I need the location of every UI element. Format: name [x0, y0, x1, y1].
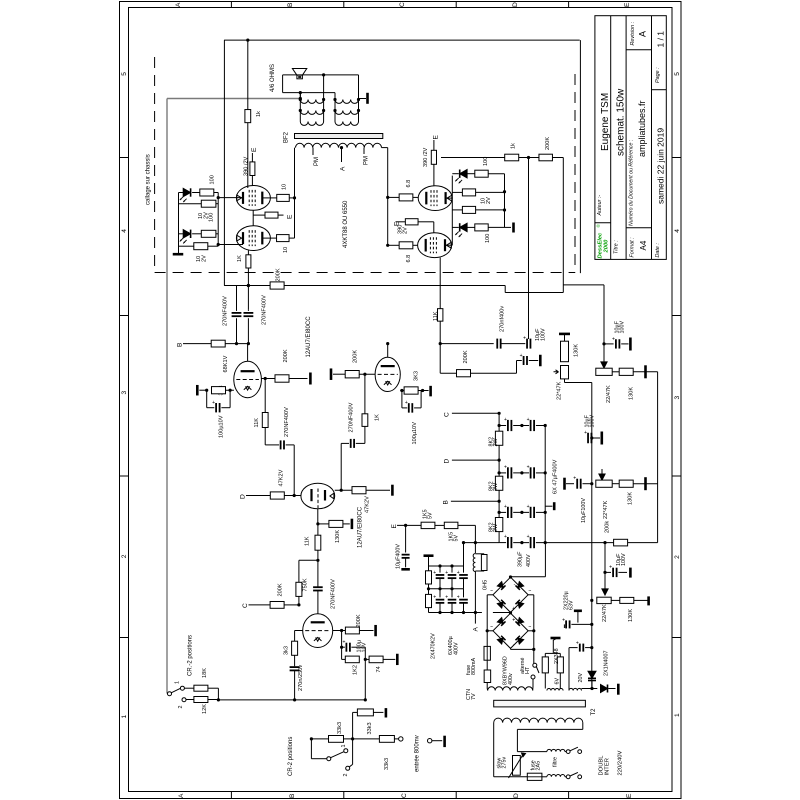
- switch SW2 contact 1: [344, 749, 348, 753]
- resistor 200K decoupling row: [440, 372, 456, 374]
- resistor 1K2 input cathode: [345, 656, 359, 663]
- svg-text:T2: T2: [591, 708, 597, 716]
- terminal bar V5 plate load: [309, 373, 312, 385]
- svg-text:2: 2: [674, 555, 681, 559]
- chassis dashed boundary right vertical: [574, 74, 576, 273]
- wire D row right: [452, 459, 499, 461]
- svg-text:2V: 2V: [202, 255, 208, 262]
- svg-text:ampliatubes.fr: ampliatubes.fr: [637, 100, 647, 157]
- resistor 11K below V4: [438, 309, 443, 322]
- transformer BF2 core bar: [295, 134, 383, 139]
- svg-text:2V: 2V: [403, 227, 409, 234]
- svg-text:270nf400v: 270nf400v: [499, 306, 505, 332]
- choke damping resistor: [481, 555, 487, 571]
- varistor slow 275v: [513, 756, 521, 776]
- svg-text:INTER: INTER: [605, 758, 611, 775]
- rectifier 6V network wires: [544, 673, 546, 689]
- filter cap row2: [499, 472, 506, 474]
- svg-text:+: +: [457, 570, 460, 576]
- svg-text:A: A: [638, 31, 648, 37]
- svg-text:+: +: [342, 640, 345, 646]
- svg-text:filtre: filtre: [552, 757, 558, 767]
- svg-text:B: B: [287, 2, 294, 7]
- svg-text:200K: 200K: [283, 349, 289, 362]
- switch SW2 contact 2: [346, 766, 350, 770]
- potentiometer 22*47K row2: [596, 480, 612, 487]
- wire V4 bottom chain: [439, 258, 441, 309]
- resistor 100 D3: [467, 173, 475, 175]
- svg-text:100V: 100V: [590, 415, 596, 428]
- svg-text:6.8: 6.8: [406, 255, 412, 263]
- svg-text:270NF400V: 270NF400V: [284, 407, 290, 437]
- row2 ground bar: [563, 478, 566, 490]
- svg-text:3K3: 3K3: [414, 371, 420, 381]
- svg-text:1: 1: [674, 713, 681, 717]
- wire bar to 200K: [333, 373, 345, 375]
- svg-text:-: -: [514, 582, 516, 588]
- switch mains lower contact a: [566, 775, 570, 779]
- wire screen feed vertical left: [223, 40, 225, 285]
- wire 12K to junction: [208, 699, 219, 701]
- resistor bias mid right: [452, 209, 462, 211]
- wire to chassis terminal: [359, 98, 367, 100]
- potentiometer 22/47K row1: [596, 368, 612, 375]
- resistor 11K V5 chain: [262, 413, 268, 428]
- wire T2 primary right down: [582, 723, 584, 730]
- svg-text:Titre :: Titre :: [614, 240, 620, 254]
- capacitor 270n/250v V8: [294, 655, 296, 666]
- node bridge junction: [509, 611, 512, 614]
- svg-text:+: +: [504, 534, 507, 540]
- terminal bar splitter load: [391, 485, 394, 496]
- wire speaker loop right vertical: [358, 75, 360, 122]
- wire switch to HT winding: [532, 679, 534, 687]
- svg-text:B: B: [177, 342, 184, 347]
- svg-text:3k3: 3k3: [284, 646, 290, 655]
- wire pot chain corner: [564, 379, 566, 383]
- title block revision cell divider: [626, 49, 651, 51]
- svg-text:22/47K: 22/47K: [606, 385, 612, 403]
- svg-text:CR.-2 positions: CR.-2 positions: [188, 635, 194, 676]
- switch mains lower contact b: [578, 775, 582, 779]
- svg-text:200K: 200K: [463, 350, 469, 363]
- svg-text:C: C: [242, 603, 249, 608]
- resistor 18K: [184, 687, 194, 689]
- svg-text:100: 100: [483, 157, 489, 166]
- capacitor 270NF400V coupling left: [280, 440, 282, 449]
- wire between 1K5: [435, 524, 444, 526]
- wire input row: [311, 738, 399, 740]
- wire 18K to junction: [208, 687, 219, 689]
- svg-text:10µF100V: 10µF100V: [581, 498, 587, 523]
- filter cap row3: [499, 511, 506, 513]
- svg-text:PM: PM: [314, 157, 320, 166]
- wire V8 grid leak right: [333, 630, 342, 632]
- wire screen drop: [528, 158, 530, 340]
- svg-text:270NF400V: 270NF400V: [331, 579, 337, 609]
- svg-text:130K: 130K: [629, 387, 635, 400]
- resistor 3K3 V5 cathode: [212, 389, 234, 391]
- sense bus vertical right: [657, 372, 659, 543]
- wire HT plus from filter bus to bridge: [544, 543, 546, 577]
- svg-text:B: B: [443, 500, 450, 505]
- svg-text:+: +: [504, 504, 507, 510]
- wire to vertical drop: [552, 157, 563, 159]
- svg-text:100µ10V: 100µ10V: [412, 422, 418, 445]
- wire B+ distribution horizontal: [224, 285, 505, 287]
- svg-text:samedi 22 juin 2019: samedi 22 juin 2019: [656, 128, 666, 204]
- wire V1 bottom to V2 top: [252, 210, 254, 225]
- border zone ticks right edge: [672, 157, 681, 159]
- wire primary tap node A: [341, 148, 343, 162]
- wire row1 to bus: [633, 371, 657, 373]
- svg-text:10µF400V: 10µF400V: [396, 544, 402, 569]
- wire bridge right rail: [528, 594, 534, 596]
- terminal bar decoupling: [539, 355, 542, 367]
- resistor 130K row3: [611, 599, 620, 601]
- svg-text:+: +: [573, 476, 576, 482]
- wire mid rail right: [591, 383, 593, 689]
- node feedback tap: [299, 97, 302, 100]
- svg-text:400V: 400V: [454, 642, 460, 655]
- wire primary right end: [382, 147, 388, 149]
- filter cap row4 long wire: [499, 542, 506, 544]
- tube V4 KT88 lower right: [418, 233, 452, 258]
- svg-text:~: ~: [528, 625, 531, 631]
- supply top bus: [429, 565, 464, 567]
- capacitor 270NF400V to input grid: [313, 586, 323, 588]
- svg-text:B: B: [289, 793, 296, 798]
- bleeder resistor 2X470K b: [426, 594, 432, 607]
- resistor 10 V2 plate: [277, 235, 290, 242]
- wire splitter bottom: [317, 509, 319, 524]
- thermistor CTN: [486, 660, 488, 670]
- terminal bar 130K splitter: [351, 519, 354, 529]
- svg-text:400V: 400V: [526, 554, 532, 567]
- svg-text:C: C: [444, 412, 451, 417]
- svg-text:7V: 7V: [471, 693, 477, 700]
- diode D3 bias right: [460, 170, 467, 178]
- svg-text:+: +: [520, 353, 523, 359]
- svg-text:74: 74: [376, 666, 382, 672]
- svg-text:+: +: [504, 417, 507, 423]
- ground chassis bar right bias: [505, 226, 512, 228]
- resistor 2X348 b: [557, 657, 563, 673]
- terminal bar V8 grid leak: [374, 625, 377, 636]
- svg-text:A: A: [340, 166, 347, 171]
- input terminal circle 2: [428, 739, 432, 743]
- svg-text:CR-2 positions: CR-2 positions: [288, 737, 294, 776]
- svg-text:6V: 6V: [554, 678, 560, 685]
- resistor 130K row1: [612, 371, 619, 373]
- svg-text:PM: PM: [364, 156, 370, 165]
- terminal bar row2: [644, 477, 647, 490]
- svg-text:5: 5: [674, 72, 681, 76]
- wire between: [519, 157, 539, 159]
- resistor 10 V1 plate: [277, 194, 290, 201]
- resistor 100 D2: [192, 233, 201, 235]
- svg-text:+: +: [512, 618, 515, 624]
- wire speaker loop top: [283, 74, 359, 76]
- resistor 100 D1: [192, 192, 200, 194]
- wire vertical drop right A: [562, 158, 564, 293]
- svg-text:130K: 130K: [574, 344, 580, 357]
- svg-text:~: ~: [490, 625, 493, 631]
- svg-text:22*47K: 22*47K: [603, 500, 609, 519]
- svg-text:1K2: 1K2: [353, 665, 359, 675]
- svg-text:100V: 100V: [620, 321, 626, 334]
- wire V1 plate to resistor: [262, 197, 276, 199]
- wire 220u stub: [563, 624, 565, 628]
- capacitor 10uF 100V B net: [526, 339, 528, 349]
- svg-text:10: 10: [282, 184, 288, 190]
- wire row2 to bus: [633, 483, 657, 485]
- wire V5 plate down chain: [264, 379, 266, 413]
- wire node B left: [183, 343, 211, 345]
- svg-text:2: 2: [343, 774, 349, 777]
- tube V5 12AU7 left driver: [234, 361, 262, 397]
- svg-text:E: E: [391, 524, 398, 529]
- switch SW1 contact 2: [182, 698, 186, 702]
- wire bias right rail upper: [217, 193, 219, 247]
- svg-text:33k3: 33k3: [337, 722, 343, 734]
- wire V5 plate node: [261, 378, 275, 380]
- potentiometer 22*47K left chain: [561, 366, 569, 379]
- wire pot row3 feed: [604, 543, 606, 589]
- svg-text:callage sur chassis: callage sur chassis: [146, 154, 152, 205]
- wire input ground: [432, 740, 442, 742]
- diode 1N4007 horizontal: [601, 685, 608, 693]
- filter cap row1: [499, 425, 506, 427]
- node caps to B wire: [247, 284, 250, 287]
- resistor 200K V7 load: [345, 371, 359, 378]
- wire V2 plate resistor to primary: [289, 237, 295, 239]
- wire B net right extension: [440, 343, 494, 345]
- terminal bar input cathode: [396, 654, 399, 665]
- capacitor 10uF400V E bypass: [405, 525, 407, 552]
- speaker LS1 horn: [292, 69, 306, 76]
- svg-text:A: A: [175, 2, 182, 7]
- resistor 3K3 V7 cathode: [400, 390, 404, 392]
- ground bar input: [443, 736, 446, 747]
- svg-text:E: E: [251, 147, 258, 152]
- svg-text:4XKT88 OU 6550: 4XKT88 OU 6550: [343, 200, 349, 248]
- capacitor 100u10V V5 bypass: [206, 390, 208, 408]
- main filter caps 6X400u row1: [439, 566, 441, 573]
- resistor 390 2V V4 grid: [396, 221, 406, 223]
- svg-text:2X470K2V: 2X470K2V: [431, 633, 437, 659]
- wire to splitter: [284, 495, 301, 497]
- ground bar filter bus: [545, 505, 552, 507]
- svg-text:E: E: [626, 793, 633, 798]
- svg-text:BF2: BF2: [284, 131, 290, 143]
- wire grid leak down: [341, 631, 343, 660]
- svg-text:1: 1: [121, 715, 128, 719]
- resistor 47K2V grid splitter: [270, 492, 284, 499]
- wire C row right: [452, 412, 499, 414]
- svg-text:100: 100: [210, 175, 216, 184]
- wire bridge2 bottom to rail: [510, 648, 512, 649]
- svg-text:C: C: [399, 2, 406, 7]
- svg-text:11K: 11K: [254, 418, 260, 428]
- svg-text:20V: 20V: [578, 673, 584, 683]
- svg-text:E: E: [433, 135, 440, 140]
- capacitor 270nf400v B net: [496, 339, 498, 349]
- svg-text:63V: 63V: [569, 600, 575, 610]
- svg-text:270NF400V: 270NF400V: [223, 296, 229, 326]
- wire V2 chain to B+ wire: [247, 268, 249, 309]
- filter coil lower: [547, 775, 565, 777]
- terminal bar 10uF row3: [629, 568, 632, 578]
- node A stub: [474, 613, 476, 624]
- switch mains upper contact b: [578, 750, 582, 754]
- choke 0H5 coil: [474, 543, 476, 553]
- diode D2 bias: [183, 230, 190, 238]
- wire V4 chain to decoupling row: [439, 344, 441, 374]
- switch alterne HT contact b: [531, 675, 535, 679]
- resistor 200K on B+ wire: [270, 282, 284, 289]
- svg-text:100V: 100V: [540, 328, 546, 341]
- left pot chain ground bar: [559, 333, 570, 336]
- wire 20V winding left up: [568, 648, 570, 691]
- wire node C left: [249, 604, 271, 606]
- wire 11K to cap: [264, 428, 266, 445]
- transformer T2 winding 6V: [547, 688, 563, 690]
- switch SW2 pivot: [327, 757, 331, 761]
- svg-text:+: +: [612, 336, 615, 342]
- svg-text:200k: 200k: [605, 521, 611, 533]
- transformer T2 winding 20V: [569, 688, 582, 690]
- ground bar 10uF400V: [401, 568, 410, 571]
- resistor 2X348 a: [542, 657, 548, 673]
- diode D4 bias right: [460, 223, 467, 231]
- wire bias rail right-right: [504, 174, 506, 228]
- svg-text:130K: 130K: [628, 492, 634, 505]
- svg-text:Format :: Format :: [630, 237, 636, 258]
- filter cap bus right: [544, 426, 546, 543]
- node speaker return junction: [299, 91, 302, 94]
- wire mains lower: [494, 776, 528, 778]
- wire E row: [397, 524, 421, 526]
- wire mains upper: [517, 751, 547, 753]
- resistor 10 2V cathode V3: [452, 191, 462, 193]
- svg-text:D: D: [240, 494, 247, 499]
- svg-text:HT: HT: [525, 666, 531, 674]
- wire divider vertical: [352, 712, 354, 739]
- svg-text:10V: 10V: [361, 642, 367, 652]
- wire speaker loop left: [282, 75, 284, 93]
- wire V7 plate from B wire: [387, 344, 389, 358]
- chassis dashed boundary left vertical: [154, 57, 156, 273]
- svg-text:2X348: 2X348: [554, 648, 560, 664]
- svg-text:+: +: [527, 417, 530, 423]
- capacitor 10uF 100V top: [604, 343, 614, 345]
- svg-text:68K1V: 68K1V: [223, 355, 229, 372]
- wire rail to winding row: [591, 681, 593, 689]
- wire branch to 750K: [299, 559, 318, 561]
- svg-text:2: 2: [178, 706, 184, 709]
- wire supply divider rail: [498, 413, 500, 542]
- svg-text:1k: 1k: [256, 111, 262, 117]
- terminal bar row1: [644, 365, 647, 378]
- svg-text:5V: 5V: [453, 535, 459, 542]
- wire B to caps junction: [225, 343, 247, 345]
- switch SW1 contact 1: [180, 686, 184, 690]
- wire right rail to pot row1: [603, 285, 605, 362]
- wire B+ jog down: [504, 286, 506, 293]
- wire T2 primary right jog: [517, 728, 582, 730]
- svg-text:12K: 12K: [202, 704, 208, 714]
- svg-text:A4: A4: [639, 240, 648, 250]
- wire 1K chain right driver: [364, 426, 366, 443]
- wire V8 cathode left: [295, 630, 303, 632]
- svg-text:47K2V: 47K2V: [279, 469, 285, 486]
- svg-text:D: D: [513, 793, 520, 798]
- svg-text:47K2V: 47K2V: [365, 496, 371, 513]
- wire winding row: [582, 688, 598, 690]
- resistor 200K V5 plate load: [275, 375, 289, 382]
- resistor 1K right driver chain: [362, 414, 368, 427]
- svg-text:400v: 400v: [508, 673, 514, 685]
- svg-text:4/6 OHMS: 4/6 OHMS: [270, 64, 276, 92]
- wire feedback horizontal to speaker terminal: [167, 98, 300, 100]
- filter coil upper: [547, 749, 565, 751]
- wire row4 left extension: [464, 542, 500, 544]
- svg-text:+: +: [527, 504, 530, 510]
- svg-text:Date :: Date :: [655, 243, 661, 258]
- svg-text:C: C: [401, 793, 408, 798]
- svg-text:200K: 200K: [276, 268, 282, 281]
- wire SW2 contact2: [352, 739, 354, 765]
- svg-text:Eugene TSM: Eugene TSM: [600, 93, 611, 151]
- resistor 74 input cathode: [365, 658, 369, 660]
- wire splitter plate row: [335, 489, 352, 491]
- svg-text:2A5: 2A5: [536, 761, 542, 771]
- potentiometer 22/47K row3: [597, 597, 611, 603]
- node junction top rail: [246, 39, 249, 42]
- svg-text:5V: 5V: [427, 512, 433, 519]
- wire T2 primary left down: [493, 723, 495, 777]
- wire 200K to junction: [284, 604, 299, 606]
- svg-text:11K: 11K: [433, 311, 439, 321]
- svg-text:800mA: 800mA: [471, 658, 477, 675]
- wire fuse to coil: [542, 776, 547, 778]
- chassis dashed boundary bottom horizontal: [155, 272, 575, 274]
- transformer T2 core bar: [494, 700, 586, 707]
- resistor E-row between V1 V2: [265, 212, 278, 218]
- svg-text:+: +: [504, 464, 507, 470]
- capacitor 270NF400V left a: [236, 286, 238, 311]
- resistor 1k top right: [505, 154, 519, 161]
- tube V7 12AU7 right driver: [375, 357, 400, 391]
- svg-text:+: +: [584, 430, 587, 436]
- resistor 12K: [186, 699, 194, 701]
- resistor 100 D4: [467, 226, 475, 228]
- wire bias rail right-left: [451, 176, 453, 246]
- wire V4 grid 6.8 resistor: [388, 244, 400, 246]
- svg-text:275v: 275v: [502, 757, 508, 769]
- svg-text:+: +: [445, 595, 448, 601]
- capacitor 100u10V V7 bypass: [401, 391, 403, 408]
- wire feedback to input stage: [218, 699, 365, 701]
- svg-text:200K: 200K: [356, 614, 362, 627]
- svg-text:schemat. 150w: schemat. 150w: [616, 88, 627, 156]
- svg-text:2W: 2W: [493, 523, 499, 532]
- drawing sheet outer border: [120, 2, 682, 799]
- svg-text:390 /2V: 390 /2V: [423, 147, 429, 167]
- svg-text:100µ10V: 100µ10V: [219, 415, 225, 438]
- ground bar 220u b: [574, 609, 582, 612]
